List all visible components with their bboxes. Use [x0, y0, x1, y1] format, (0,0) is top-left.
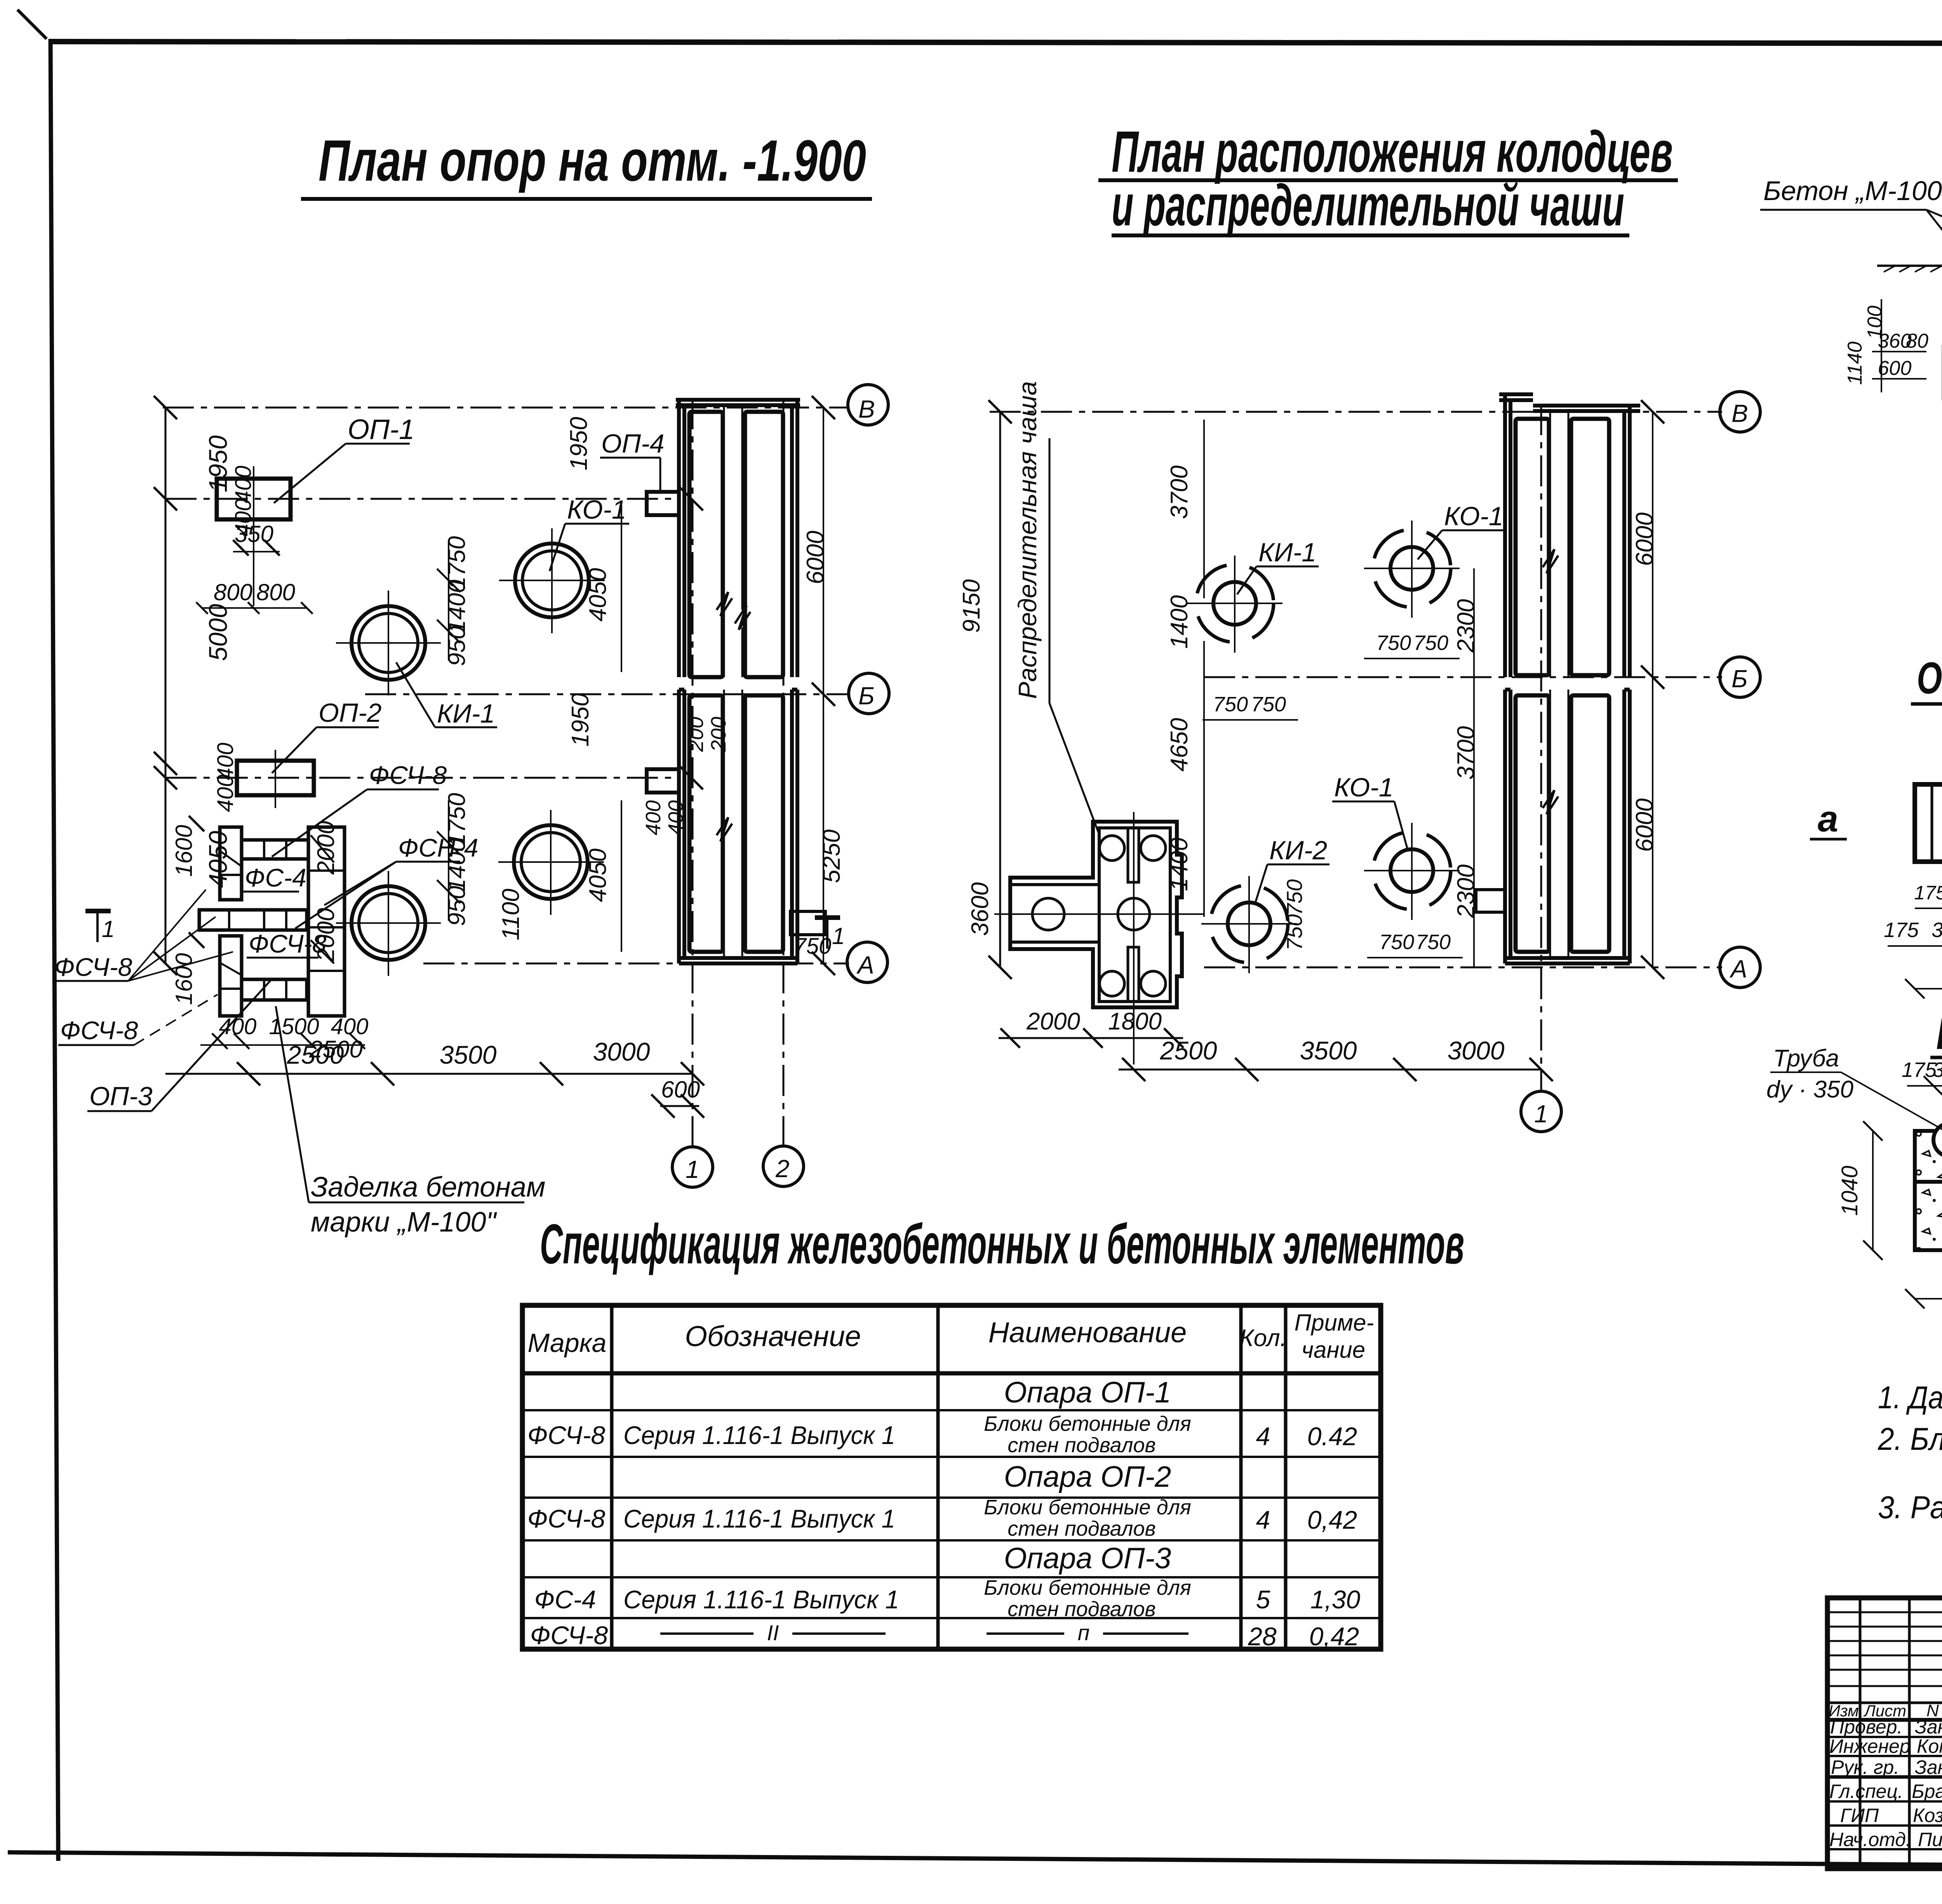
- svg-text:Зантберг: Зантберг: [1915, 1756, 1942, 1778]
- svg-text:Блоки бетонные для: Блоки бетонные для: [984, 1412, 1191, 1435]
- bowl dims: [999, 1037, 1183, 1039]
- svg-text:2000: 2000: [1026, 1008, 1080, 1035]
- svg-text:350: 350: [1932, 918, 1942, 942]
- pipes on top: [1933, 1123, 1942, 1157]
- chamber 1 inner rect lower (midplan): [1516, 695, 1549, 952]
- block cluster: right column: [308, 827, 345, 1016]
- svg-text:Бетон „М-100': Бетон „М-100': [1763, 176, 1942, 206]
- svg-text:Б: Б: [858, 682, 875, 710]
- column lines: [610, 1305, 614, 1649]
- tank structure (plan) upper section: [1499, 394, 1640, 677]
- table frame: [522, 1305, 1381, 1649]
- svg-text:1400: 1400: [1166, 595, 1193, 649]
- svg-text:II: II: [767, 1620, 779, 1645]
- extra ticks left plan: [154, 487, 703, 948]
- left dim line: [999, 412, 1001, 967]
- well КИ-2: [336, 871, 441, 976]
- svg-text:Опара ОП-2: Опара ОП-2: [1004, 1460, 1171, 1493]
- svg-text:ФСЧ-8: ФСЧ-8: [527, 1504, 606, 1533]
- svg-text:стен подвалов: стен подвалов: [1008, 1434, 1155, 1457]
- svg-text:1600: 1600: [171, 953, 197, 1005]
- svg-text:350: 350: [1933, 1058, 1942, 1082]
- svg-text:750: 750: [1213, 693, 1248, 716]
- svg-text:1: 1: [832, 923, 845, 949]
- svg-text:1: 1: [686, 1155, 700, 1183]
- block a-a : top concrete part: [1915, 1131, 1942, 1182]
- svg-text:1140: 1140: [1844, 341, 1866, 385]
- tank structure lower section: [679, 690, 797, 963]
- axis А dash-dot: [423, 963, 849, 965]
- left border: [50, 39, 58, 1861]
- axis circle 2: [763, 1146, 804, 1186]
- svg-text:4650: 4650: [1166, 718, 1193, 772]
- svg-text:600: 600: [1878, 357, 1912, 380]
- svg-text:750: 750: [1416, 930, 1451, 954]
- svg-text:Рук. гр.: Рук. гр.: [1831, 1756, 1899, 1778]
- block cluster: left-bottom column: [220, 936, 242, 1016]
- svg-text:ФСЧ-8: ФСЧ-8: [54, 953, 132, 981]
- svg-text:Б: Б: [1731, 665, 1748, 693]
- bottom dim chain 2500 3500 3000: [165, 1073, 693, 1075]
- svg-text:6000: 6000: [1631, 798, 1658, 852]
- svg-text:марки „М-100": марки „М-100": [311, 1207, 498, 1238]
- section mark Т1 right: [815, 915, 840, 920]
- ОП-2 plan rect: [1915, 784, 1942, 862]
- svg-text:1500: 1500: [269, 1014, 319, 1039]
- svg-text:9150: 9150: [958, 579, 985, 633]
- bottom dim chain: [1119, 1069, 1541, 1071]
- signature rows: [1827, 1736, 1942, 1738]
- svg-text:1. Данный лист комплектен с ли: 1. Данный лист комплектен с листом КЖ-9: [1878, 1380, 1942, 1415]
- svg-text:1800: 1800: [1108, 1008, 1162, 1035]
- svg-text:Инженер: Инженер: [1829, 1735, 1911, 1757]
- ground line: [1877, 265, 1942, 267]
- chamber 1 inner rect upper (midplan): [1516, 419, 1549, 675]
- row centerline through ОП-1: [165, 498, 680, 500]
- header bottom: [522, 1371, 1381, 1376]
- block cluster: top bar: [242, 840, 308, 859]
- chamber 1 inner rect upper: [689, 412, 723, 677]
- well КИ-2 (dashed): [1201, 876, 1297, 973]
- svg-text:1950: 1950: [566, 417, 592, 470]
- block cluster: left-top column: [220, 827, 242, 900]
- svg-text:175: 175: [1902, 1058, 1937, 1082]
- tank structure lower section (midplan): [1505, 690, 1630, 963]
- well КО-2 (dashed): [1364, 823, 1460, 920]
- vertical dim lines midplan: [1652, 412, 1653, 967]
- svg-text:В: В: [1731, 399, 1748, 427]
- svg-text:200: 200: [707, 717, 730, 752]
- svg-text:1950: 1950: [567, 693, 594, 747]
- svg-text:По а-а: По а-а: [1936, 1009, 1942, 1059]
- svg-text:Гл.спец.: Гл.спец.: [1829, 1780, 1903, 1802]
- svg-text:3500: 3500: [440, 1040, 497, 1069]
- svg-text:ФСН-4: ФСН-4: [398, 833, 478, 862]
- svg-text:750: 750: [1251, 693, 1286, 716]
- svg-text:КИ-1: КИ-1: [1258, 538, 1316, 567]
- protrusion lower right: [790, 911, 825, 935]
- svg-text:2500: 2500: [1160, 1036, 1217, 1065]
- svg-text:28: 28: [1248, 1622, 1277, 1651]
- axis 1 vertical: [692, 398, 694, 1148]
- svg-text:ОП-2: ОП-2: [318, 698, 382, 728]
- header row line: [1827, 1718, 1942, 1722]
- svg-text:Серия 1.116-1 Выпуск 1: Серия 1.116-1 Выпуск 1: [623, 1421, 895, 1449]
- well КО-2: [498, 810, 604, 915]
- svg-text:2000: 2000: [313, 821, 339, 875]
- svg-text:2500: 2500: [309, 1036, 363, 1063]
- thin top rows of revision table: [1827, 1611, 1942, 1613]
- axis А dash-dot: [1204, 967, 1722, 969]
- svg-text:План опор на отм. -1.900: План опор на отм. -1.900: [318, 128, 866, 193]
- chamber 2 inner rect upper (midplan): [1571, 419, 1609, 675]
- svg-text:2. Блоки под опоры укладываютс: 2. Блоки под опоры укладываются на цемен…: [1878, 1421, 1942, 1457]
- svg-text:КО-1: КО-1: [567, 495, 626, 524]
- svg-text:1: 1: [102, 916, 115, 942]
- svg-text:dy · 350: dy · 350: [1766, 1076, 1853, 1103]
- support ОП-2: [237, 761, 314, 795]
- svg-text:Приме-: Приме-: [1295, 1310, 1374, 1336]
- svg-text:2: 2: [775, 1155, 790, 1183]
- axis circle В: [848, 385, 888, 425]
- svg-text:ОП-3: ОП-3: [89, 1082, 153, 1111]
- block cluster: bottom bar: [242, 979, 307, 1000]
- distribution bowl inner: [1099, 828, 1170, 1002]
- svg-text:3700: 3700: [1166, 465, 1193, 519]
- chamber 2 inner rect upper: [745, 412, 783, 677]
- partitions (midplan lower): [1549, 690, 1551, 796]
- svg-text:175: 175: [1884, 918, 1919, 942]
- svg-text:3700: 3700: [1453, 726, 1479, 780]
- svg-text:ФСЧ-8: ФСЧ-8: [530, 1621, 608, 1650]
- svg-text:4050: 4050: [585, 568, 611, 622]
- svg-text:стен подвалов: стен подвалов: [1008, 1517, 1155, 1540]
- svg-text:ФС-4: ФС-4: [534, 1585, 596, 1614]
- outer frame: [1827, 1598, 1942, 1869]
- svg-text:400: 400: [331, 1014, 369, 1039]
- bowl centerlines: [994, 913, 1204, 915]
- well КИ-1 (dashed): [1187, 556, 1282, 653]
- block a-a : lower blocks: [1915, 1182, 1942, 1250]
- svg-text:80: 80: [1906, 330, 1928, 352]
- svg-text:А: А: [856, 951, 874, 979]
- svg-text:Заделка бетонам: Заделка бетонам: [311, 1172, 545, 1203]
- svg-text:750: 750: [1282, 879, 1307, 915]
- svg-text:Распределительная чаша: Распределительная чаша: [1013, 381, 1042, 699]
- svg-text:3. Расход бетона М-100 на моно: 3. Расход бетона М-100 на монолитные уча…: [1878, 1490, 1942, 1525]
- svg-text:ФСЧ-8: ФСЧ-8: [60, 1016, 138, 1045]
- svg-text:3000: 3000: [1448, 1036, 1505, 1065]
- svg-text:0,42: 0,42: [1309, 1622, 1359, 1651]
- svg-text:Браславский: Браславский: [1912, 1780, 1942, 1802]
- svg-text:750: 750: [1376, 631, 1411, 655]
- svg-text:Провер.: Провер.: [1830, 1716, 1902, 1738]
- distribution bowl outer: [1010, 822, 1182, 1007]
- left columns: [1859, 1598, 1862, 1869]
- svg-text:Опора ОП-2: Опора ОП-2: [1917, 653, 1942, 703]
- svg-text:3000: 3000: [593, 1037, 650, 1066]
- svg-text:1,30: 1,30: [1310, 1585, 1361, 1614]
- svg-text:0,42: 0,42: [1307, 1505, 1357, 1534]
- axis В dash-dot: [163, 407, 849, 409]
- bowl circles: [1100, 836, 1124, 861]
- well КО-1 (dashed): [1364, 521, 1460, 618]
- chamber 2 inner rect lower (midplan): [1571, 695, 1609, 952]
- svg-text:750: 750: [1413, 631, 1448, 655]
- svg-text:ФСЧ-8: ФСЧ-8: [369, 761, 447, 789]
- svg-text:Пичахчи: Пичахчи: [1918, 1829, 1942, 1850]
- row lines: [522, 1409, 1381, 1411]
- chamber 2 inner rect lower: [745, 695, 783, 952]
- svg-text:стен подвалов: стен подвалов: [1008, 1597, 1155, 1621]
- svg-text:400: 400: [213, 775, 238, 812]
- dim 600: [660, 1105, 699, 1107]
- bottom border: [8, 1852, 1942, 1869]
- section mark Т1 left: [85, 909, 111, 913]
- axis circle В: [1720, 392, 1760, 432]
- svg-text:3500: 3500: [1300, 1036, 1357, 1065]
- svg-text:4050: 4050: [585, 848, 611, 902]
- axis Б dash-dot: [365, 693, 849, 695]
- svg-text:175: 175: [1914, 882, 1942, 904]
- svg-text:Спецификация железобетонных и: Спецификация железобетонных и бетонных э…: [540, 1212, 1464, 1275]
- svg-text:Труба: Труба: [1773, 1045, 1839, 1072]
- chamber 1 inner rect lower: [689, 695, 723, 952]
- axis circle Б: [1720, 657, 1760, 697]
- svg-text:ФСЧ-8: ФСЧ-8: [249, 929, 327, 958]
- ground hatch ticks: [1884, 264, 1942, 272]
- svg-text:750: 750: [1379, 930, 1414, 954]
- tank structure walls (plan) upper section: [676, 400, 800, 677]
- fold mark top-left: [17, 10, 47, 39]
- pipe pass-through: [1931, 784, 1933, 862]
- svg-text:950: 950: [444, 626, 470, 666]
- axis В dash-dot: [990, 411, 1722, 413]
- svg-text:5: 5: [1256, 1585, 1270, 1614]
- support ОП-1: [217, 479, 291, 519]
- support ОП-4 mid: [647, 769, 679, 793]
- middle partition thin lines lower: [723, 690, 725, 824]
- axis circle А: [847, 942, 887, 982]
- vertical dim lines right side of left plan: [621, 505, 622, 672]
- bowl slots: [1128, 828, 1139, 882]
- svg-text:п: п: [1078, 1620, 1090, 1645]
- svg-text:1100: 1100: [498, 888, 524, 940]
- axis circle 1: [672, 1147, 713, 1187]
- svg-text:Серия 1.116-1 Выпуск 1: Серия 1.116-1 Выпуск 1: [623, 1585, 899, 1614]
- svg-text:Опара ОП-1: Опара ОП-1: [1004, 1376, 1171, 1409]
- svg-text:6000: 6000: [802, 531, 829, 584]
- svg-text:В: В: [858, 395, 875, 423]
- svg-text:Зантберг: Зантберг: [1915, 1716, 1942, 1738]
- svg-text:600: 600: [661, 1077, 700, 1103]
- svg-text:750: 750: [1282, 914, 1307, 950]
- svg-text:1040: 1040: [1837, 1165, 1862, 1216]
- row centerline through ОП-2: [165, 777, 680, 779]
- svg-text:КИ-1: КИ-1: [437, 699, 495, 728]
- svg-text:ФС-4: ФС-4: [245, 863, 306, 892]
- svg-text:Нач.отд.: Нач.отд.: [1829, 1829, 1911, 1850]
- svg-text:2300: 2300: [1453, 599, 1479, 653]
- block cluster: middle bar: [199, 910, 307, 930]
- axis Б dash-dot: [1204, 676, 1722, 678]
- svg-text:1: 1: [1534, 1100, 1548, 1128]
- svg-text:ФСЧ-8: ФСЧ-8: [527, 1421, 606, 1449]
- svg-text:1600: 1600: [171, 825, 197, 876]
- svg-text:КИ-2: КИ-2: [1269, 836, 1327, 865]
- partitions (midplan upper): [1549, 411, 1551, 556]
- left dim chain: [165, 408, 167, 963]
- svg-text:КО-1: КО-1: [1334, 773, 1394, 802]
- well КО-1: [499, 528, 605, 633]
- tank bottom-left protrusion midplan: [1476, 890, 1505, 912]
- svg-text:Опара ОП-3: Опара ОП-3: [1004, 1542, 1171, 1575]
- svg-text:4: 4: [1256, 1505, 1270, 1534]
- svg-text:А: А: [1729, 955, 1747, 983]
- svg-text:Кол.: Кол.: [1239, 1325, 1287, 1352]
- svg-text:КО-1: КО-1: [1444, 502, 1503, 531]
- svg-text:6000: 6000: [1631, 512, 1658, 566]
- axis 2 vertical: [783, 398, 785, 1148]
- svg-text:Блоки бетонные для: Блоки бетонные для: [984, 1496, 1191, 1519]
- svg-text:5000: 5000: [204, 604, 232, 661]
- axis circle А: [1720, 947, 1760, 988]
- svg-text:800: 800: [256, 579, 295, 605]
- svg-text:и распределительной чаши: и распределительной чаши: [1112, 172, 1624, 238]
- axis 1 vertical: [1540, 404, 1542, 1092]
- top border: [49, 42, 1942, 44]
- svg-text:4050: 4050: [204, 831, 232, 888]
- svg-text:750: 750: [794, 934, 832, 959]
- svg-text:5250: 5250: [818, 829, 845, 883]
- svg-text:Блоки бетонные для: Блоки бетонные для: [984, 1576, 1191, 1599]
- middle partition thin lines upper: [723, 405, 725, 598]
- svg-text:Марка: Марка: [528, 1328, 607, 1358]
- svg-text:Козловская: Козловская: [1913, 1805, 1942, 1826]
- svg-text:ГИП: ГИП: [1840, 1805, 1879, 1826]
- svg-text:800: 800: [214, 579, 252, 605]
- svg-text:Наименование: Наименование: [988, 1316, 1187, 1348]
- axis circle 1: [1521, 1091, 1561, 1132]
- svg-text:чание: чание: [1302, 1337, 1365, 1363]
- svg-text:4: 4: [1256, 1422, 1270, 1451]
- svg-text:400: 400: [231, 466, 256, 503]
- svg-text:Обозначение: Обозначение: [685, 1320, 861, 1352]
- svg-text:400: 400: [642, 800, 665, 835]
- svg-text:Серия 1.116-1 Выпуск 1: Серия 1.116-1 Выпуск 1: [623, 1504, 895, 1533]
- svg-text:а: а: [1818, 798, 1838, 840]
- svg-text:ОП-4: ОП-4: [601, 429, 665, 458]
- svg-text:Коптев: Коптев: [1917, 1735, 1942, 1757]
- support ОП-4 top: [647, 492, 679, 515]
- svg-text:3600: 3600: [967, 882, 994, 936]
- svg-text:0.42: 0.42: [1307, 1422, 1357, 1451]
- well КИ-1: [336, 591, 441, 695]
- axis circle Б: [849, 673, 889, 714]
- svg-text:ОП-1: ОП-1: [348, 414, 414, 445]
